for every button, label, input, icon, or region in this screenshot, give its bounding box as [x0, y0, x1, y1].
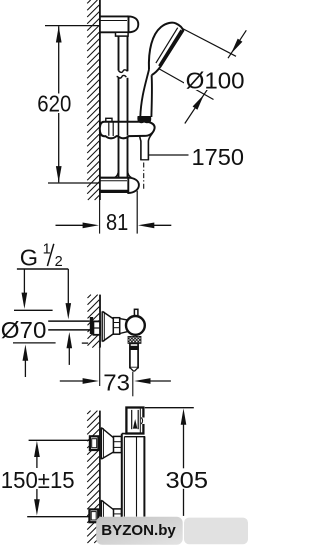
svg-text:81: 81 — [106, 209, 128, 235]
watermark BYZON.by — [96, 517, 248, 545]
hose centerline (dash-dot) — [143, 163, 145, 190]
dimension 620 — [37, 26, 99, 183]
rail (upper segment with break) — [117, 36, 128, 78]
supply pipe — [48, 321, 90, 330]
G1/2 leader with two arrows — [17, 269, 71, 319]
hose transition and hose (cut) — [140, 133, 153, 160]
upper supply nut — [90, 436, 99, 450]
lower escutcheon — [101, 500, 121, 531]
dimension diameter 70 — [1, 310, 88, 377]
bottom wall bracket arm — [100, 171, 139, 194]
thermostat body — [122, 434, 145, 517]
upper escutcheon — [101, 428, 121, 460]
hand shower head — [149, 23, 183, 76]
svg-text:2: 2 — [55, 254, 63, 270]
knurled union nut — [128, 336, 141, 343]
top wall bracket arm — [100, 16, 139, 36]
outlet tube — [130, 343, 138, 371]
svg-text:620: 620 — [37, 91, 71, 117]
label G 1/2 — [20, 242, 63, 271]
svg-text:1: 1 — [43, 242, 51, 258]
escutcheon cone (middle) — [102, 311, 128, 341]
valve stem cap — [134, 309, 138, 317]
svg-text:BYZON.by: BYZON.by — [101, 522, 176, 539]
extension lines for 73 — [99, 348, 101, 386]
wall (hatched, middle) — [88, 295, 101, 348]
svg-text:G: G — [20, 245, 38, 271]
dimension 150 +/- 15 — [1, 441, 75, 516]
rail (lower segment) — [119, 77, 128, 177]
lower supply nut — [89, 509, 98, 522]
wall (hatched, bottom) — [87, 411, 100, 543]
dimension 73 — [60, 369, 171, 395]
dimension diameter 100 — [159, 29, 247, 124]
leader + label 1750 (hose length) — [149, 144, 244, 170]
thermostat knob (top) — [126, 408, 144, 434]
wall (hatched) — [87, 0, 100, 200]
svg-text:73: 73 — [103, 369, 130, 395]
hex nut on supply pipe — [90, 317, 100, 335]
glider holder body on rail — [100, 116, 155, 138]
dimension 305 — [145, 408, 208, 516]
wall extension line down to 81 dim — [99, 200, 101, 234]
150 dim extension lines — [29, 439, 90, 441]
svg-text:1750: 1750 — [192, 144, 245, 170]
valve body circle — [126, 316, 145, 335]
holder grip (dark band) — [137, 116, 151, 123]
dimension 81 — [56, 191, 172, 235]
svg-text:Ø100: Ø100 — [186, 68, 245, 94]
svg-text:150±15: 150±15 — [1, 467, 75, 493]
hand shower handle — [140, 70, 152, 118]
svg-text:305: 305 — [166, 467, 209, 493]
svg-text:Ø70: Ø70 — [1, 317, 47, 343]
